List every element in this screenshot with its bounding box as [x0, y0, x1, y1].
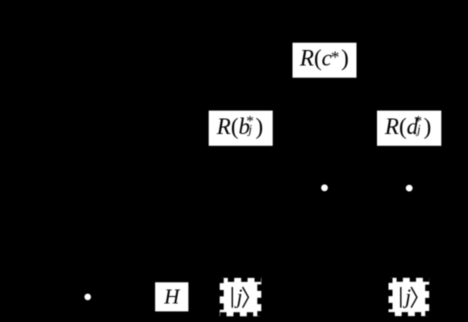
- wire q2 (y=188): [60, 187, 460, 189]
- control dot on q2 under R(d_j*): [406, 185, 413, 192]
- gate R(c*) box: [293, 43, 357, 78]
- vertical connector wire: R(d_j*) to control on q2: [408, 146, 410, 188]
- svg-text:H: H: [163, 285, 181, 309]
- svg-text:): ): [255, 114, 263, 139]
- control dot on q2 under R(c*): [321, 184, 328, 191]
- gate R(b_j*) box: [209, 111, 273, 146]
- svg-text:*: *: [331, 47, 340, 66]
- wire q0 (top, y=60.2): [60, 59, 460, 61]
- vertical connector wire: control on q3 upward: [87, 188, 89, 297]
- svg-text:R(c: R(c: [299, 45, 332, 70]
- gate R(d_j*) box: [377, 111, 441, 146]
- svg-text:): ): [424, 114, 432, 139]
- svg-text:R(d: R(d: [384, 114, 419, 139]
- state box |j> (left, dashed): [220, 278, 262, 316]
- wire q3 (bottom, y=296.9): [20, 296, 460, 298]
- svg-text:R(b: R(b: [216, 114, 250, 139]
- wire q1 (y=128.2): [60, 127, 460, 129]
- vertical connector wire: R(c*) to control on q2: [324, 78, 326, 188]
- gate H box: [155, 282, 188, 311]
- control dot on q3: [84, 294, 91, 301]
- state box |j> (right, dashed): [389, 278, 430, 316]
- svg-text:): ): [341, 45, 349, 70]
